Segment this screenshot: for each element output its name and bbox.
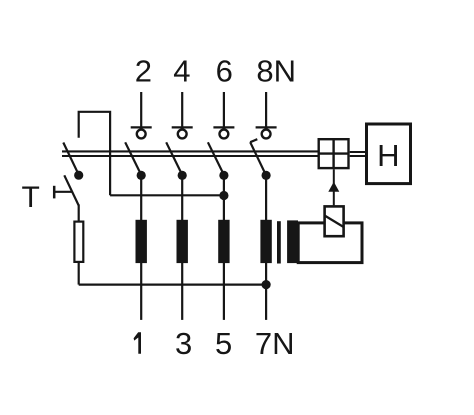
- terminal 4 lead wire: [181, 92, 183, 128]
- double line latch to handle (upper): [350, 151, 365, 153]
- wire resistor to bottom test wire: [78, 263, 80, 285]
- pole 2 wire to winding: [181, 175, 183, 220]
- pole 3 primary winding: [218, 220, 229, 263]
- pole 1 wire to bottom terminal: [140, 263, 142, 320]
- pole 2 contact blade: [166, 142, 182, 175]
- terminal 8N lead wire: [265, 92, 267, 128]
- terminal 6 circle: [220, 130, 229, 139]
- svg-text:T: T: [22, 181, 40, 214]
- pole 3 test tap junction dot: [219, 191, 228, 200]
- double line latch to handle (lower): [350, 155, 365, 157]
- terminal 4 tick: [172, 126, 193, 128]
- svg-text:6: 6: [216, 53, 233, 88]
- secondary circuit loop: [298, 223, 362, 263]
- trip linkage arrow: [328, 182, 339, 192]
- latch box cross horizontal: [319, 152, 349, 154]
- auxiliary contact blade (test): [63, 143, 78, 175]
- test tap wire to pole 3: [110, 194, 224, 196]
- pole 2 wire to bottom terminal: [181, 263, 183, 320]
- pole 4 wire to winding: [265, 175, 267, 220]
- wire blade to resistor: [78, 205, 80, 221]
- pole 2 primary winding: [177, 220, 188, 263]
- svg-text:4: 4: [173, 53, 190, 88]
- terminal 8N circle: [262, 130, 271, 139]
- test button actuator bar: [53, 186, 56, 199]
- pole 4 blade tip stub: [250, 139, 257, 142]
- pole 1 junction dot: [137, 171, 146, 180]
- test button actuator rod: [54, 191, 72, 193]
- svg-text:2: 2: [135, 53, 152, 88]
- pole 4 junction dot: [262, 171, 271, 180]
- pole 3 junction dot: [219, 171, 228, 180]
- pole 2 junction dot: [178, 171, 187, 180]
- terminal 2 lead wire: [140, 92, 142, 128]
- pole 1 contact blade: [125, 142, 141, 175]
- test button contact blade: [64, 175, 78, 205]
- pole 3 wire to bottom terminal: [223, 263, 225, 320]
- pole 3 contact blade: [208, 142, 224, 175]
- bottom test wire to 7N: [79, 284, 266, 286]
- handle box H: [367, 124, 411, 184]
- mechanical coupling double line (upper): [62, 150, 318, 152]
- trip relay box: [325, 206, 344, 236]
- pole 4 bottom junction dot: [262, 280, 271, 289]
- junction dot test blade: [74, 171, 83, 180]
- test bypass wire (inverted U): [79, 112, 110, 196]
- pole 3 wire to winding: [223, 175, 225, 220]
- latch box cross vertical: [332, 139, 334, 168]
- pole 4 wire to bottom terminal: [265, 263, 267, 320]
- svg-text:8N: 8N: [256, 53, 296, 88]
- test resistor: [74, 222, 83, 262]
- svg-text:H: H: [377, 138, 399, 173]
- terminal 8N tick: [256, 126, 277, 128]
- terminal 6 tick: [213, 126, 234, 128]
- pole 4 (neutral) contact blade: [250, 142, 266, 175]
- trip linkage wire: [333, 169, 335, 205]
- terminal 2 circle: [137, 130, 146, 139]
- pole 1 wire to winding: [140, 175, 142, 220]
- toroid core bar: [277, 221, 281, 263]
- secondary winding bar: [287, 220, 298, 263]
- svg-text:3: 3: [175, 326, 192, 361]
- svg-text:5: 5: [215, 326, 232, 361]
- pole 4 primary winding: [260, 220, 271, 263]
- svg-text:7N: 7N: [255, 326, 295, 361]
- terminal 4 circle: [178, 130, 187, 139]
- mechanical coupling double line (lower): [62, 155, 318, 157]
- latch mechanism box: [319, 139, 349, 168]
- label terminal 1: [134, 332, 141, 354]
- pole 1 primary winding: [136, 220, 147, 263]
- trip relay diagonal: [325, 216, 344, 228]
- terminal 2 tick: [131, 126, 152, 128]
- terminal 6 lead wire: [223, 92, 225, 128]
